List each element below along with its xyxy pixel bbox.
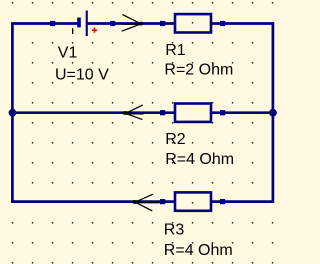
resistor R2 bbox=[160, 104, 225, 122]
svg-text:R=2 Ohm: R=2 Ohm bbox=[164, 62, 233, 79]
current arrow top bbox=[139, 22, 143, 26]
current arrow bottom bbox=[133, 200, 137, 204]
wire top middle segment bbox=[87, 22, 176, 25]
node junction left bbox=[9, 109, 17, 117]
svg-text:R3: R3 bbox=[164, 221, 185, 238]
resistor R3 bbox=[160, 192, 225, 210]
node junction right bbox=[269, 109, 277, 117]
current arrow middle bbox=[123, 111, 127, 115]
svg-text:R=4 Ohm: R=4 Ohm bbox=[164, 242, 233, 259]
wire left+bottom loop bbox=[12, 24, 175, 202]
wire right loop bbox=[211, 24, 273, 202]
resistor R1 bbox=[160, 14, 225, 32]
wire middle right bbox=[211, 111, 273, 114]
svg-text:R=4 Ohm: R=4 Ohm bbox=[165, 151, 234, 168]
battery V1 bbox=[50, 11, 115, 37]
wire middle left bbox=[12, 111, 175, 114]
svg-text:U=10 V: U=10 V bbox=[55, 66, 109, 83]
svg-text:R1: R1 bbox=[165, 42, 186, 59]
svg-text:V1: V1 bbox=[58, 44, 78, 61]
svg-text:R2: R2 bbox=[165, 131, 186, 148]
